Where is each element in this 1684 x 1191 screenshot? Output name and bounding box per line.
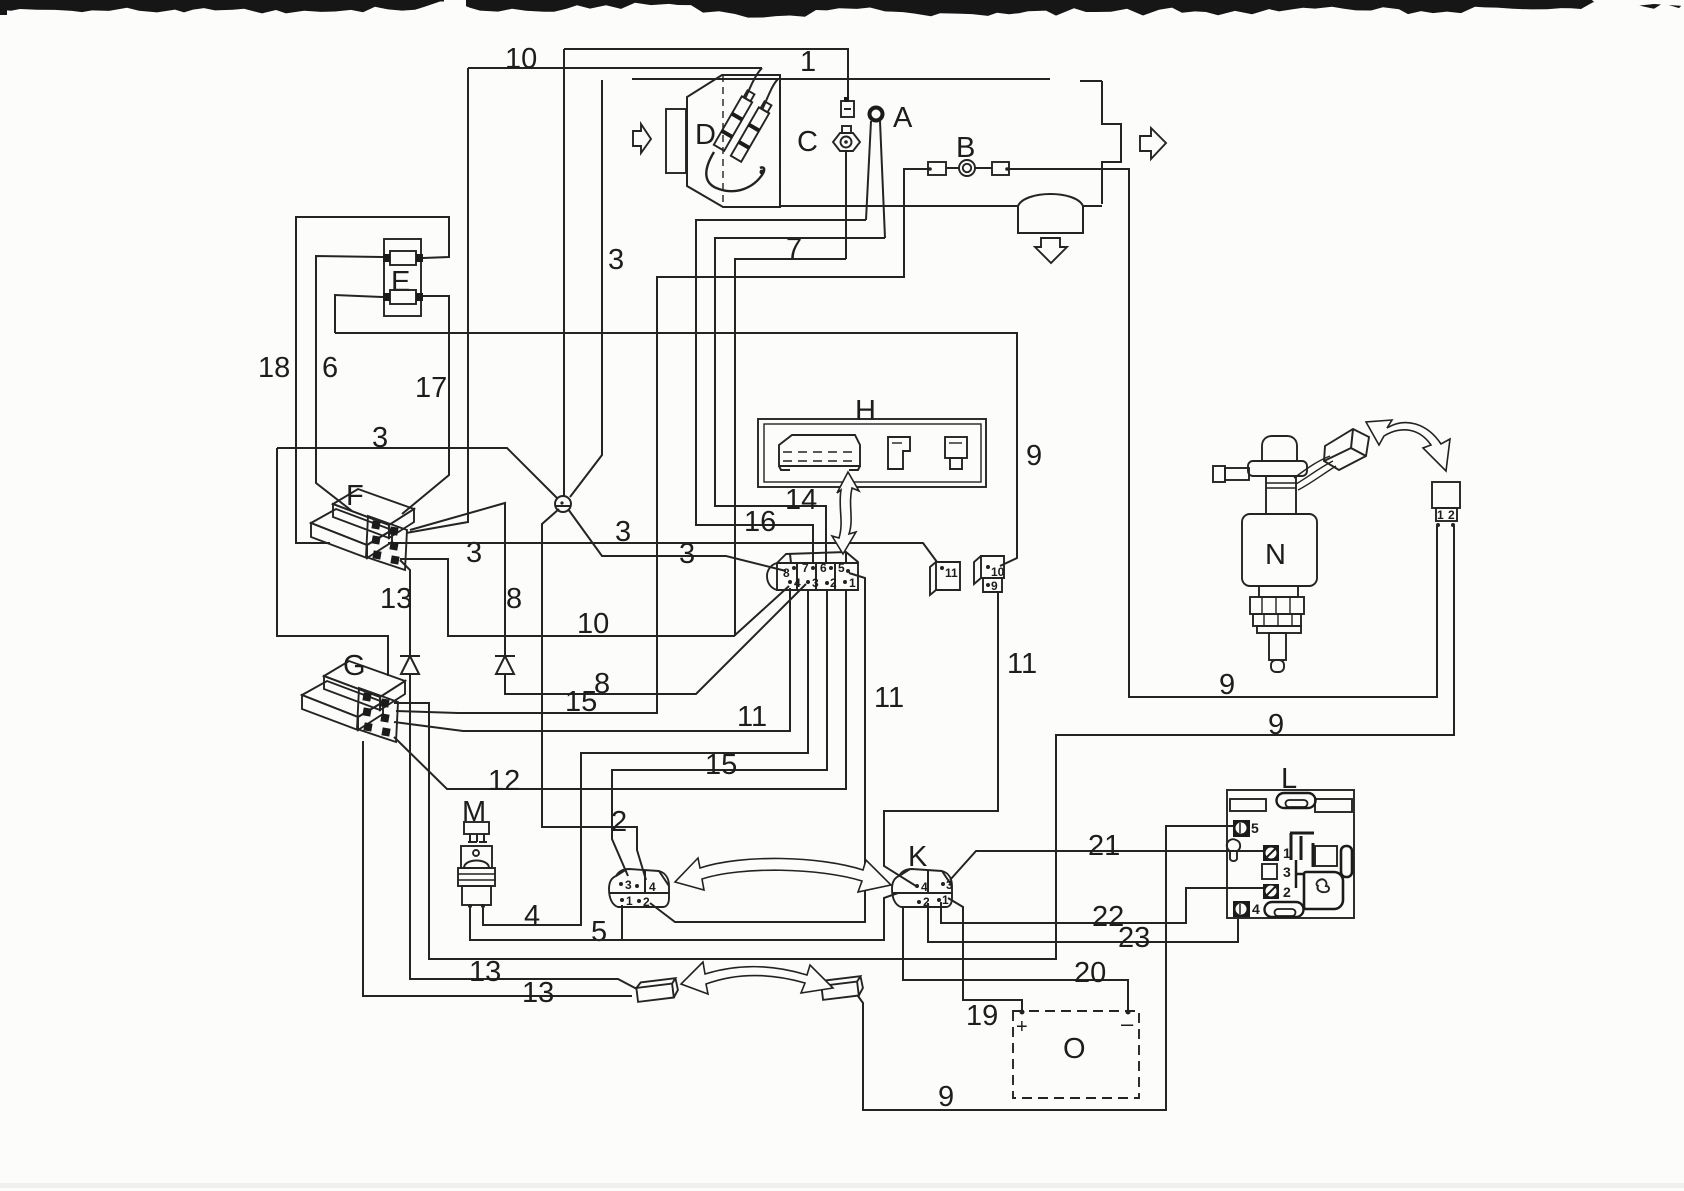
diode 1 (400, 656, 420, 674)
lug connector right (821, 976, 864, 1000)
svg-text:4: 4 (1252, 901, 1260, 917)
wire 14 chain (A right lead to strip pin 6) (715, 238, 885, 562)
svg-text:10: 10 (577, 608, 609, 640)
relay G body (302, 661, 405, 742)
svg-text:C: C (797, 126, 818, 158)
svg-text:2: 2 (1283, 884, 1291, 900)
combustion chamber D housing (687, 75, 780, 207)
svg-text:21: 21 (1088, 830, 1120, 862)
wire 3 left leg down to G (277, 448, 388, 676)
flame sensor terminal (wire 1 end) (841, 101, 854, 117)
pump M body (458, 822, 495, 908)
wire 16 chain (A left lead to strip pin 5) (696, 220, 866, 562)
sensor A probe / wire 7 pair (866, 121, 885, 238)
wire 10 (top run) (468, 67, 762, 69)
combustion air arrow (633, 124, 651, 153)
svg-text:10: 10 (991, 565, 1005, 579)
svg-text:2: 2 (1448, 508, 1455, 522)
relay F body (311, 489, 414, 570)
wire 15 from strip pin 2 to fuel pump M (612, 590, 827, 876)
wire 19 from K to battery plus (948, 898, 1022, 1012)
svg-text:N: N (1265, 539, 1286, 571)
heater bottom edge (780, 205, 1102, 207)
curved double arrow between lugs (681, 962, 833, 994)
svg-text:6: 6 (820, 561, 827, 575)
svg-text:1: 1 (849, 576, 856, 590)
pump N pigtail wires (1294, 456, 1336, 490)
svg-text:1: 1 (1437, 508, 1444, 522)
node A vertical (wire 1 left leg down to junction node) (563, 49, 565, 497)
svg-text:3: 3 (615, 516, 631, 548)
wire from C down (845, 151, 847, 259)
glow plug supply wires (745, 68, 778, 110)
svg-text:16: 16 (744, 506, 776, 538)
svg-text:1: 1 (800, 46, 816, 78)
svg-text:3: 3 (812, 576, 819, 590)
svg-text:7: 7 (802, 561, 809, 575)
svg-text:O: O (1063, 1033, 1086, 1065)
svg-text:G: G (343, 650, 366, 682)
wire 9 from B right terminal down right side to pump connector pin 1 (1009, 169, 1437, 697)
svg-text:2: 2 (830, 576, 837, 590)
wire 20 from K to battery minus (903, 907, 1128, 1012)
svg-text:13: 13 (380, 583, 412, 615)
wire 9 chain from G across bottom to pump connector pin 2 (394, 526, 1454, 959)
vehicle side connector for pump (1432, 482, 1460, 527)
wire 3 from relay F to connector 11 (388, 543, 937, 562)
svg-text:2: 2 (643, 895, 650, 909)
fuel solenoid valve B (928, 162, 946, 175)
mounting dome on heater bottom (1018, 194, 1083, 233)
svg-text:3: 3 (1283, 864, 1291, 880)
svg-text:9: 9 (938, 1081, 954, 1113)
ECU block inside H (779, 435, 860, 470)
svg-text:M: M (462, 796, 486, 828)
svg-text:11: 11 (1007, 648, 1037, 680)
svg-text:9: 9 (1219, 669, 1235, 701)
diode 2 (495, 656, 515, 674)
curved double arrow between M and K connectors (675, 858, 891, 892)
svg-text:4: 4 (921, 880, 928, 894)
combustion air inlet flange (666, 109, 686, 173)
wire 18 (E enclosure left + top) (296, 217, 449, 543)
torn paper scan edge (top) (0, 0, 1684, 18)
svg-text:17: 17 (415, 372, 447, 404)
wire 11 from G to strip pin 4 (394, 588, 790, 731)
svg-text:11: 11 (945, 566, 958, 580)
svg-text:23: 23 (1118, 922, 1150, 954)
wire 5 from M connector to K connector (622, 893, 898, 940)
svg-text:8: 8 (783, 566, 790, 580)
svg-text:5: 5 (838, 561, 845, 575)
wire 13 from F through diode down (400, 560, 637, 989)
svg-text:9: 9 (1268, 709, 1284, 741)
battery plus terminal (1020, 1010, 1025, 1015)
wire 10 mid run from F to strip pin 4 (400, 559, 789, 636)
svg-text:9: 9 (991, 579, 998, 593)
svg-text:D: D (695, 119, 716, 151)
svg-text:3: 3 (625, 878, 632, 892)
svg-text:10: 10 (505, 43, 537, 75)
glow plug heater coil hook (706, 152, 764, 191)
svg-text:14: 14 (785, 484, 817, 516)
wire 3 horizontal to G branch (277, 448, 557, 498)
wire from connector 9 down to K pin 4 (884, 592, 998, 886)
svg-text:15: 15 (565, 686, 597, 718)
svg-text:1: 1 (942, 893, 949, 907)
svg-text:4: 4 (794, 576, 801, 590)
wire 10 vertical to relay F (406, 68, 468, 533)
svg-text:3: 3 (946, 878, 953, 892)
glow plug 1 (714, 89, 756, 150)
svg-text:3: 3 (608, 244, 624, 276)
svg-text:1: 1 (626, 894, 633, 908)
dashed section lines of D (723, 75, 780, 207)
svg-text:4: 4 (524, 900, 540, 932)
svg-text:5: 5 (1251, 820, 1259, 836)
wire 3 from heater down to junction node (570, 80, 602, 497)
svg-text:5: 5 (591, 916, 607, 948)
wire 5 left leg (M pump left terminal down) (470, 908, 622, 940)
wire 8 chain from F through diode to strip pin 3 (410, 503, 806, 694)
wire 22 from K to L terminal 2 (941, 888, 1263, 923)
connector M (2x2, heater loom) (609, 869, 669, 909)
exhaust down arrow (1035, 238, 1067, 263)
wire 4/11 from strip pin 5 down to connector M pin 2 (650, 573, 865, 922)
connector K (2x2, vehicle loom) (892, 869, 953, 909)
svg-text:13: 13 (469, 956, 501, 988)
svg-text:A: A (893, 102, 913, 134)
svg-text:E: E (391, 266, 410, 298)
svg-text:3: 3 (372, 422, 388, 454)
svg-text:–: – (1121, 1011, 1134, 1036)
svg-text:12: 12 (488, 765, 520, 797)
curved double arrow pump plug to connector (1366, 420, 1450, 471)
resistor E upper (390, 251, 416, 265)
svg-text:20: 20 (1074, 957, 1106, 989)
svg-text:6: 6 (322, 352, 338, 384)
wire 21 from K pin 3 to control L terminal 1 (950, 851, 1263, 880)
faint scan line (bottom) (0, 1183, 1684, 1188)
svg-text:H: H (855, 395, 876, 427)
heater top edge (632, 79, 1102, 81)
svg-text:11: 11 (874, 682, 904, 714)
svg-text:8: 8 (506, 583, 522, 615)
outlet air arrow (1140, 128, 1166, 159)
series resistor unit E inner box (384, 239, 421, 316)
E lower loop wiring (335, 295, 449, 333)
resistor E lower (390, 290, 416, 304)
lug connector left (636, 978, 679, 1002)
svg-text:4: 4 (649, 880, 656, 894)
wire 13 from G lower pin to lug (363, 741, 632, 996)
wire C-branch vertical (flame switch into 10 rail) (735, 259, 846, 636)
wire 12 from G to strip pin 1 (394, 590, 846, 789)
battery minus terminal (1126, 1010, 1131, 1015)
glow plug 2 (731, 100, 773, 161)
wire 1 (top run to flame terminal) (564, 49, 848, 101)
wire 4 from strip pin 3 to fuel pump M right terminal (483, 590, 808, 925)
relay block inside H (888, 437, 910, 469)
svg-text:13: 13 (522, 977, 554, 1009)
wire 23 from K to L terminal 4 (928, 903, 1238, 942)
junction node (555, 496, 571, 512)
connector 10/9 (974, 556, 1005, 593)
wire 2 from junction node to connector M pin 4 (542, 509, 646, 880)
wire from B left terminal down-left to relay G (via 15 run) (396, 169, 928, 713)
connector 11 (930, 562, 960, 595)
svg-text:9: 9 (1026, 440, 1042, 472)
overheat sensor A (ring) (870, 108, 883, 121)
pump N pigtail plug (1324, 429, 1369, 470)
wire 9 from right lug down along bottom to control L terminal 5 (858, 826, 1233, 1110)
sensor block inside H (945, 437, 967, 469)
svg-text:19: 19 (966, 1000, 998, 1032)
wire 3 node to connector strip pin 8 (568, 509, 786, 571)
svg-text:18: 18 (258, 352, 290, 384)
svg-text:F: F (346, 480, 364, 512)
svg-text:2: 2 (611, 806, 627, 838)
wire 17 (402, 333, 449, 514)
svg-text:11: 11 (737, 701, 767, 733)
wire 6 (316, 256, 383, 511)
svg-text:3: 3 (466, 537, 482, 569)
svg-text:+: + (1016, 1016, 1028, 1038)
wire 9 upper run (E bottom rail across to connector 10) (335, 333, 1017, 566)
double arrow H to strip (832, 472, 859, 554)
heater right side with outlet stub (1102, 81, 1121, 204)
flame switch C (hex body) (842, 126, 851, 133)
